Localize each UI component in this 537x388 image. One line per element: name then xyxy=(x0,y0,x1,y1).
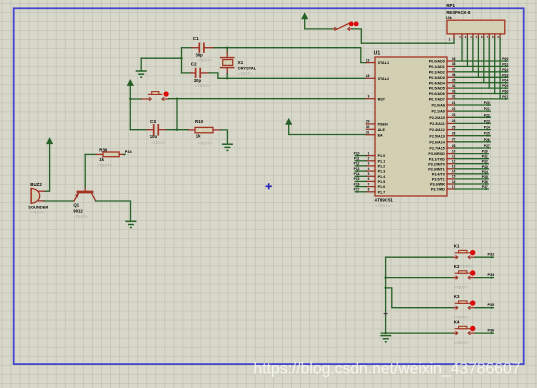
wire xyxy=(455,153,488,155)
svg-text:16: 16 xyxy=(452,180,456,184)
svg-text:C2: C2 xyxy=(191,62,197,67)
svg-text:11: 11 xyxy=(452,155,456,159)
svg-text:4: 4 xyxy=(368,167,370,171)
wire xyxy=(455,178,488,180)
svg-text:CRYSTAL: CRYSTAL xyxy=(238,65,257,70)
wire xyxy=(129,86,131,130)
wire xyxy=(477,38,479,77)
capacitor C2 xyxy=(182,69,210,78)
svg-text:25: 25 xyxy=(452,125,456,129)
node P11 xyxy=(354,157,360,162)
svg-text:18: 18 xyxy=(366,74,370,78)
svg-text:<TEXT>: <TEXT> xyxy=(238,71,253,76)
svg-text:P2.0/A8: P2.0/A8 xyxy=(431,104,444,108)
svg-text:P3.5/T1: P3.5/T1 xyxy=(432,178,445,182)
svg-text:27: 27 xyxy=(452,138,456,142)
svg-text:R10: R10 xyxy=(195,119,204,124)
svg-text:XTAL2: XTAL2 xyxy=(378,77,389,81)
power symbol VCC (buzzer) (VCC arrow) xyxy=(47,138,53,144)
svg-text:P24: P24 xyxy=(484,126,490,130)
svg-text:<TEXT>: <TEXT> xyxy=(376,203,391,208)
pin 31 EA (U1) xyxy=(366,131,383,138)
svg-text:30: 30 xyxy=(366,125,370,129)
pin 34 P0.5/AD5 (U1) xyxy=(429,84,456,91)
capacitor C3 xyxy=(130,125,166,135)
push button RESET (with state dot) xyxy=(130,91,168,100)
junction marker xyxy=(384,312,388,316)
wire xyxy=(213,48,366,63)
wire xyxy=(455,82,508,84)
microcontroller U1 AT89C51 body xyxy=(375,57,447,196)
wire xyxy=(221,130,228,144)
svg-text:P26: P26 xyxy=(484,138,490,142)
svg-text:P31: P31 xyxy=(482,155,488,159)
svg-text:P2.6/A14: P2.6/A14 xyxy=(429,140,445,144)
svg-text:P0.4/AD4: P0.4/AD4 xyxy=(429,81,446,85)
svg-text:15: 15 xyxy=(452,175,456,179)
wire xyxy=(386,277,454,279)
wire xyxy=(455,71,508,73)
svg-text:P1.7: P1.7 xyxy=(378,190,386,194)
svg-text:P1.1: P1.1 xyxy=(378,159,386,163)
svg-text:10: 10 xyxy=(452,149,456,153)
node P37 xyxy=(482,185,489,190)
wire xyxy=(455,135,490,137)
wire xyxy=(455,173,488,175)
resistor pack RP1 body xyxy=(447,20,505,34)
node P36 xyxy=(482,180,489,185)
push button K3 (with state dot) xyxy=(453,300,475,309)
svg-text:Q1: Q1 xyxy=(73,202,79,207)
svg-text:P20: P20 xyxy=(484,101,490,105)
svg-text:P2.2/A10: P2.2/A10 xyxy=(429,116,444,120)
switch SW1 (with state dots) xyxy=(333,22,359,31)
wire xyxy=(96,201,131,221)
svg-text:1: 1 xyxy=(449,38,451,42)
wire xyxy=(455,122,490,124)
ground transistor emitter ground xyxy=(125,221,136,227)
wire xyxy=(475,332,493,334)
svg-text:5: 5 xyxy=(368,172,370,176)
pin 18 XTAL2 (U1) xyxy=(366,74,389,81)
svg-text:BUZ2: BUZ2 xyxy=(30,182,42,187)
wire xyxy=(499,38,501,99)
svg-text:XTAL1: XTAL1 xyxy=(378,61,389,65)
push button K4 (with state dot) xyxy=(453,326,475,335)
svg-text:P12: P12 xyxy=(354,162,360,166)
pin 1 (RP1 common) xyxy=(449,34,454,42)
node P35 xyxy=(482,175,489,180)
svg-text:P06: P06 xyxy=(502,90,508,94)
node P16 xyxy=(354,182,360,187)
pin 33 P0.6/AD6 (U1) xyxy=(429,89,456,96)
pin 13 P3.3/INT1 (U1) xyxy=(428,165,455,172)
node P34 xyxy=(482,170,489,175)
pin 24 P2.3/A11 (U1) xyxy=(430,119,456,126)
wire xyxy=(475,277,493,279)
pin 16 P3.6/WR (U1) xyxy=(430,180,456,187)
svg-text:P34: P34 xyxy=(125,150,133,154)
node P06 xyxy=(502,90,508,95)
svg-text:P07: P07 xyxy=(502,95,508,99)
wire xyxy=(355,160,366,162)
wire xyxy=(494,38,496,93)
svg-text:PSEN: PSEN xyxy=(378,123,388,127)
svg-text:P21: P21 xyxy=(484,107,490,111)
pin 8 (RP1) xyxy=(492,34,495,39)
node P14 xyxy=(354,172,360,177)
power symbol VCC (EA pin) (VCC arrow) xyxy=(286,119,292,125)
pin 35 P0.4/AD4 (U1) xyxy=(429,79,456,86)
pin 5 (RP1) xyxy=(476,34,479,39)
wire xyxy=(182,47,192,49)
svg-text:P2.3/A11: P2.3/A11 xyxy=(430,122,445,126)
wire xyxy=(84,154,86,187)
junction xyxy=(180,57,182,59)
svg-text:P37: P37 xyxy=(482,185,488,189)
wire xyxy=(355,180,366,182)
node P34 xyxy=(124,150,133,155)
power symbol VCC (top switch) (VCC arrow) xyxy=(302,13,308,19)
svg-text:8: 8 xyxy=(368,188,370,192)
svg-text:9012: 9012 xyxy=(73,208,83,213)
svg-text:14: 14 xyxy=(452,170,456,174)
wire xyxy=(455,183,488,185)
ground oscillator ground xyxy=(136,71,147,77)
svg-text:10u: 10u xyxy=(150,134,158,139)
svg-text:P2.7/A15: P2.7/A15 xyxy=(429,147,444,151)
wire xyxy=(355,186,366,188)
svg-text:35: 35 xyxy=(452,79,456,83)
svg-text:29: 29 xyxy=(366,120,370,124)
junction xyxy=(226,47,228,49)
pin 22 P2.1/A9 (U1) xyxy=(431,107,455,114)
wire xyxy=(355,165,366,167)
svg-text:10k: 10k xyxy=(446,16,452,20)
node P33 xyxy=(488,273,495,279)
node P33 xyxy=(482,165,489,170)
svg-text:K1: K1 xyxy=(454,244,460,249)
svg-text:P11: P11 xyxy=(354,157,360,161)
pin 3 (RP1) xyxy=(465,34,468,39)
svg-text:P0.2/AD2: P0.2/AD2 xyxy=(429,70,445,74)
svg-text:23: 23 xyxy=(452,113,456,117)
wire xyxy=(488,38,490,88)
pin 29 PSEN (U1) xyxy=(366,120,388,127)
pin 23 P2.2/A10 (U1) xyxy=(429,113,455,120)
svg-text:22: 22 xyxy=(452,107,456,111)
svg-text:K2: K2 xyxy=(454,264,460,269)
pin 9 (RP1) xyxy=(497,34,500,39)
pin 27 P2.6/A14 (U1) xyxy=(429,138,455,145)
svg-text:P1.3: P1.3 xyxy=(378,170,386,174)
svg-text:<TEXT>: <TEXT> xyxy=(195,83,210,88)
svg-text:P2.4/A12: P2.4/A12 xyxy=(429,128,444,132)
wire xyxy=(355,175,366,177)
pin 7 P1.6 (U1) xyxy=(366,182,385,189)
wire xyxy=(455,65,508,67)
node P17 xyxy=(354,188,360,193)
junction xyxy=(384,332,386,334)
svg-text:P33: P33 xyxy=(488,273,495,277)
pin 6 (RP1) xyxy=(481,34,484,39)
node P00 xyxy=(502,57,508,62)
svg-text:P3.4/T0: P3.4/T0 xyxy=(432,172,445,176)
node P32 xyxy=(488,253,495,259)
wire xyxy=(455,168,488,170)
wire xyxy=(386,256,454,258)
node P03 xyxy=(502,73,508,78)
svg-text:P32: P32 xyxy=(488,253,495,257)
svg-text:P0.5/AD5: P0.5/AD5 xyxy=(429,87,445,91)
node P07 xyxy=(502,95,508,100)
svg-text:C3: C3 xyxy=(150,119,156,124)
wire xyxy=(455,87,508,89)
crystal X1 xyxy=(221,48,234,79)
svg-text:2: 2 xyxy=(368,157,370,161)
node P24 xyxy=(484,126,491,131)
svg-text:P16: P16 xyxy=(354,182,360,186)
node P26 xyxy=(484,138,491,143)
svg-text:36: 36 xyxy=(452,73,456,77)
wire xyxy=(169,98,367,100)
node P35 xyxy=(488,303,495,309)
svg-text:P3.7/RD: P3.7/RD xyxy=(431,188,445,192)
svg-text:U1: U1 xyxy=(374,51,381,57)
svg-text:12: 12 xyxy=(452,160,456,164)
node P10 xyxy=(354,151,360,156)
svg-text:24: 24 xyxy=(452,119,456,123)
pin 25 P2.4/A12 (U1) xyxy=(429,125,455,132)
wire xyxy=(455,147,490,149)
svg-text:K4: K4 xyxy=(454,320,460,325)
svg-text:P0.7/AD7: P0.7/AD7 xyxy=(429,98,445,102)
node P21 xyxy=(484,107,491,112)
svg-text:<TEXT>: <TEXT> xyxy=(30,210,45,215)
pin 9 RST (U1) xyxy=(366,95,385,102)
pin 10 P3.0/RXD (U1) xyxy=(428,149,455,156)
svg-text:P30: P30 xyxy=(482,150,488,154)
wire xyxy=(455,141,490,143)
wire xyxy=(209,73,366,78)
svg-text:P3.0/RXD: P3.0/RXD xyxy=(428,152,445,156)
svg-text:37: 37 xyxy=(452,68,456,72)
wire xyxy=(181,48,183,73)
pin 5 P1.4 (U1) xyxy=(366,172,386,179)
node P31 xyxy=(482,155,489,160)
svg-text:X1: X1 xyxy=(238,60,244,65)
junction xyxy=(226,77,228,79)
wire xyxy=(176,99,178,130)
node P13 xyxy=(354,167,360,172)
svg-text:P3.1/TXD: P3.1/TXD xyxy=(429,157,445,161)
svg-text:P32: P32 xyxy=(482,160,488,164)
wire xyxy=(461,38,463,61)
node P01 xyxy=(502,62,508,67)
svg-text:P1.6: P1.6 xyxy=(378,185,386,189)
ground reset resistor ground xyxy=(222,144,233,150)
svg-text:<TEXT>: <TEXT> xyxy=(198,140,213,145)
svg-text:3: 3 xyxy=(368,162,370,166)
wire xyxy=(455,158,488,160)
junction xyxy=(384,276,386,278)
svg-text:<TEXT>: <TEXT> xyxy=(454,284,469,289)
origin marker cross xyxy=(266,183,272,189)
svg-text:P14: P14 xyxy=(354,172,360,176)
svg-text:13: 13 xyxy=(452,165,456,169)
wire xyxy=(455,76,508,78)
wire xyxy=(44,200,74,202)
pin 17 P3.7/RD (U1) xyxy=(431,185,456,192)
svg-text:P2.5/A13: P2.5/A13 xyxy=(429,134,444,138)
node P27 xyxy=(484,144,491,149)
svg-text:P35: P35 xyxy=(482,175,488,179)
pin 30 ALE (U1) xyxy=(366,125,386,132)
pin 4 (RP1) xyxy=(470,34,473,39)
svg-text:34: 34 xyxy=(452,84,456,88)
pin 19 XTAL1 (U1) xyxy=(366,58,389,65)
svg-text:<TEXT>: <TEXT> xyxy=(151,140,166,145)
pin 38 P0.1/AD1 (U1) xyxy=(429,62,456,69)
svg-text:P3.6/WR: P3.6/WR xyxy=(430,183,445,187)
svg-text:1: 1 xyxy=(368,151,370,155)
wire xyxy=(141,57,181,59)
wire xyxy=(355,155,366,157)
svg-text:7: 7 xyxy=(368,182,370,186)
svg-text:P34: P34 xyxy=(482,170,488,174)
push button K2 (with state dot) xyxy=(453,270,475,279)
svg-text:P25: P25 xyxy=(484,132,490,136)
wire xyxy=(140,58,142,71)
junction xyxy=(129,98,131,100)
svg-text:P0.0/AD0: P0.0/AD0 xyxy=(429,60,445,64)
svg-text:ALE: ALE xyxy=(378,128,386,132)
svg-text:33: 33 xyxy=(452,89,456,93)
svg-text:28: 28 xyxy=(452,144,456,148)
svg-text:P33: P33 xyxy=(482,165,488,169)
wire xyxy=(453,38,455,43)
wire xyxy=(475,307,493,309)
svg-text:P1.0: P1.0 xyxy=(378,154,386,158)
svg-text:<TEXT>: <TEXT> xyxy=(97,162,112,167)
svg-text:P1.4: P1.4 xyxy=(378,175,387,179)
pin 39 P0.0/AD0 (U1) xyxy=(429,57,456,64)
node P36 xyxy=(488,328,495,334)
svg-text:K3: K3 xyxy=(454,294,460,299)
wire xyxy=(466,38,468,66)
wire xyxy=(455,98,508,100)
pin 3 P1.2 (U1) xyxy=(366,162,385,169)
wire xyxy=(355,191,366,193)
wire xyxy=(455,60,508,62)
svg-text:P2.1/A9: P2.1/A9 xyxy=(431,110,444,114)
wire xyxy=(455,104,490,106)
svg-text:P27: P27 xyxy=(484,144,490,148)
svg-text:https://blog.csdn.net/weixin_4: https://blog.csdn.net/weixin_43786607 xyxy=(254,360,521,377)
svg-text:<TEXT>: <TEXT> xyxy=(198,57,213,62)
pin 12 P3.2/INT0 (U1) xyxy=(428,160,455,167)
pin 28 P2.7/A15 (U1) xyxy=(429,144,455,151)
pin 36 P0.3/AD3 (U1) xyxy=(429,73,456,80)
wire xyxy=(455,110,490,112)
pin 2 (RP1) xyxy=(459,34,462,39)
pin 8 P1.7 (U1) xyxy=(366,188,385,195)
wire xyxy=(455,188,488,190)
node P15 xyxy=(354,177,360,182)
junction xyxy=(176,98,178,100)
svg-text:21: 21 xyxy=(452,101,456,105)
svg-text:P05: P05 xyxy=(502,84,508,88)
svg-text:19: 19 xyxy=(366,58,370,62)
svg-text:6: 6 xyxy=(368,177,370,181)
node P12 xyxy=(354,162,360,167)
power symbol VCC (reset) (VCC arrow) xyxy=(127,80,133,86)
svg-text:P36: P36 xyxy=(482,180,488,184)
node P25 xyxy=(484,132,491,137)
svg-text:P10: P10 xyxy=(354,151,360,155)
wire xyxy=(85,153,96,155)
svg-text:31: 31 xyxy=(366,131,370,135)
node P22 xyxy=(484,113,491,118)
wire xyxy=(305,19,333,29)
pin 1 P1.0 (U1) xyxy=(366,151,385,158)
svg-text:<TEXT>: <TEXT> xyxy=(454,340,469,345)
wire xyxy=(289,125,367,135)
svg-text:R30: R30 xyxy=(99,147,108,152)
pin 21 P2.0/A8 (U1) xyxy=(431,101,455,108)
wire xyxy=(475,256,493,258)
junction xyxy=(176,129,178,131)
svg-text:RST: RST xyxy=(378,97,386,101)
svg-text:P17: P17 xyxy=(354,188,360,192)
pin 2 P1.1 (U1) xyxy=(366,157,385,164)
pin 15 P3.5/T1 (U1) xyxy=(432,175,456,182)
node P05 xyxy=(502,84,508,89)
resistor R30 xyxy=(96,152,124,157)
svg-text:39: 39 xyxy=(452,57,456,61)
resistor R10 xyxy=(189,127,221,132)
svg-text:17: 17 xyxy=(452,185,456,189)
wire xyxy=(44,144,49,191)
pin 4 P1.3 (U1) xyxy=(366,167,385,174)
wire xyxy=(386,288,454,308)
svg-text:P00: P00 xyxy=(502,57,508,61)
capacitor C1 xyxy=(192,43,213,52)
node P30 xyxy=(482,150,489,155)
svg-text:1k: 1k xyxy=(196,134,201,139)
wire xyxy=(352,29,454,43)
pin 14 P3.4/T0 (U1) xyxy=(432,170,456,177)
svg-text:32: 32 xyxy=(452,95,456,99)
svg-text:38: 38 xyxy=(452,62,456,66)
svg-text:P0.1/AD1: P0.1/AD1 xyxy=(429,65,445,69)
pin 6 P1.5 (U1) xyxy=(366,177,385,184)
node P02 xyxy=(502,68,508,73)
svg-text:P36: P36 xyxy=(488,328,495,332)
wire xyxy=(355,170,366,172)
svg-text:P03: P03 xyxy=(502,73,508,77)
svg-text:<TEXT>: <TEXT> xyxy=(73,214,88,219)
pin 26 P2.5/A13 (U1) xyxy=(429,132,455,139)
svg-text:P35: P35 xyxy=(488,303,495,307)
svg-text:26: 26 xyxy=(452,132,456,136)
node P04 xyxy=(502,79,508,84)
svg-text:P1.5: P1.5 xyxy=(378,180,386,184)
svg-text:RESPACK-8: RESPACK-8 xyxy=(446,10,471,15)
transistor Q1 xyxy=(74,187,96,201)
buzzer BUZ2 xyxy=(31,189,44,204)
pin 32 P0.7/AD7 (U1) xyxy=(429,95,456,102)
